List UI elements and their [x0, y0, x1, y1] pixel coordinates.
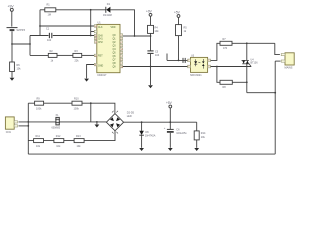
- svg-text:GND: GND: [98, 66, 103, 68]
- svg-text:1N4148: 1N4148: [103, 14, 112, 17]
- resistor R8: [220, 80, 247, 84]
- wire top row: [28, 103, 115, 113]
- junction: [90, 9, 92, 11]
- junction: [29, 43, 31, 45]
- svg-text:LED: LED: [127, 115, 132, 118]
- wire pin1 mid wire: [19, 121, 107, 123]
- wire left edge: [27, 103, 29, 154]
- svg-text:MAINS: MAINS: [285, 66, 293, 69]
- wire MT2 stem: [246, 43, 248, 60]
- junction: [27, 125, 29, 127]
- svg-text:1M: 1M: [48, 13, 51, 16]
- wire cap rail: [30, 35, 49, 37]
- svg-text:100u/25v: 100u/25v: [176, 132, 187, 135]
- ground: [10, 78, 15, 81]
- wire diode to corner: [110, 10, 150, 36]
- svg-text:100k: 100k: [74, 107, 80, 110]
- connector CN2 mains: [281, 53, 294, 65]
- wire IC pin to node: [123, 66, 151, 68]
- junction: [150, 66, 152, 68]
- svg-text:+9V: +9V: [146, 9, 153, 13]
- svg-text:+5V: +5V: [166, 101, 173, 105]
- svg-text:+9V: +9V: [8, 5, 15, 9]
- resistor R12: [54, 139, 64, 143]
- svg-text:CLK: CLK: [98, 27, 103, 29]
- svg-text:R10: R10: [74, 98, 79, 101]
- IC U1 pin boxes and texts: [94, 25, 210, 69]
- junction: [178, 60, 180, 62]
- resistor R13: [74, 139, 84, 143]
- svg-text:VDD: VDD: [111, 27, 116, 29]
- wire drop to mid: [90, 103, 92, 122]
- svg-text:+5V: +5V: [174, 10, 181, 14]
- wire R2 chain: [30, 54, 48, 56]
- svg-text:R13: R13: [76, 135, 81, 138]
- junction: [169, 121, 171, 123]
- wire node down to ground: [150, 67, 152, 86]
- wire top pin wire: [40, 25, 94, 27]
- wire battery to junction: [11, 31, 13, 44]
- resistor R5: [176, 25, 182, 61]
- wire pin6 up to R7: [211, 43, 221, 60]
- wire ground tap: [96, 122, 98, 125]
- fuse X1: [55, 117, 60, 125]
- wire MT1 to right edge: [247, 92, 275, 94]
- wire node to opto pin2: [151, 66, 188, 68]
- wire bottom vertex down: [28, 131, 115, 141]
- junction: [11, 43, 13, 45]
- ground: [168, 148, 173, 151]
- svg-text:CN1: CN1: [6, 131, 12, 134]
- capacitor C6: [167, 122, 174, 148]
- capacitor C1: [49, 33, 51, 38]
- junction: [90, 102, 92, 104]
- node +9V terminal 2: [149, 13, 152, 25]
- opto U3 pin numbers: [188, 60, 210, 68]
- wire IC pin3 stub: [123, 35, 135, 37]
- wire R1 riser: [39, 10, 41, 36]
- resistor R6: [10, 62, 15, 78]
- svg-text:CH0: CH0: [98, 36, 103, 38]
- wire dc plus rail: [124, 121, 197, 123]
- IC U1 pin boxes: [94, 25, 122, 68]
- triac U4: [242, 60, 252, 66]
- zener D6: [139, 122, 144, 148]
- resistor R9: [35, 101, 44, 105]
- wire stub up: [166, 54, 168, 61]
- svg-text:104: 104: [155, 54, 160, 57]
- wire node down to cap: [150, 36, 152, 51]
- node +5V terminal bottom: [169, 105, 172, 122]
- resistor R10: [72, 101, 82, 105]
- svg-text:470: 470: [223, 47, 228, 50]
- ground: [194, 148, 199, 151]
- diode D1: [106, 7, 111, 13]
- LED bridge D2-D5: [106, 111, 123, 134]
- ground: [139, 148, 144, 151]
- ground: [148, 85, 153, 88]
- junction: [274, 92, 276, 94]
- junction: [216, 66, 218, 68]
- svg-text:CH2: CH2: [98, 42, 103, 44]
- wire mains pin2: [275, 60, 280, 62]
- ground: [84, 79, 89, 82]
- wire cap down: [150, 54, 152, 67]
- svg-text:CH1: CH1: [98, 39, 103, 41]
- wire battery junction right: [12, 43, 30, 45]
- resistor R4: [148, 25, 154, 36]
- wire right edge: [274, 61, 276, 154]
- wire pin2: [19, 125, 29, 127]
- wire riser: [29, 36, 31, 56]
- resistor R1: [40, 8, 106, 12]
- capacitor C5: [147, 51, 153, 54]
- junction: [141, 121, 143, 123]
- wire jog vertical: [90, 10, 92, 36]
- battery B1: [7, 28, 18, 31]
- svg-text:1N4742A: 1N4742A: [145, 135, 156, 138]
- svg-text:BT136: BT136: [251, 62, 259, 65]
- wire pin stub: [91, 31, 95, 33]
- IC U1 pin numbers: [95, 26, 124, 69]
- wire gate from opto pin4: [211, 66, 252, 68]
- IC U1 pin names: [98, 27, 116, 69]
- junction: [134, 35, 136, 37]
- junction: [90, 35, 92, 37]
- resistor R7: [220, 41, 275, 45]
- svg-text:R14: R14: [201, 132, 206, 135]
- resistor R14: [194, 122, 199, 148]
- junction: [246, 42, 248, 44]
- wire cap to IC pin: [53, 35, 95, 37]
- svg-text:600/600: 600/600: [52, 127, 61, 130]
- svg-text:104: 104: [47, 39, 52, 42]
- wire opto pin1: [167, 59, 188, 61]
- svg-text:R12: R12: [56, 135, 61, 138]
- svg-text:RST: RST: [98, 55, 103, 57]
- ground: [95, 125, 100, 128]
- svg-text:9V/PP3: 9V/PP3: [17, 29, 26, 32]
- opto-coupler U3 MOC3021: [188, 57, 211, 72]
- wire IC ground pin: [87, 65, 95, 79]
- junction: [39, 25, 41, 27]
- svg-text:R11: R11: [36, 135, 41, 138]
- junction: [150, 35, 152, 37]
- junction: [96, 121, 98, 123]
- junction: [27, 121, 29, 123]
- node +5V terminal: [177, 15, 180, 25]
- svg-text:CD4017: CD4017: [97, 74, 107, 77]
- resistor R2: [48, 53, 73, 57]
- resistor R11: [34, 139, 44, 143]
- node +9V terminal: [10, 8, 13, 26]
- svg-text:MOC3021: MOC3021: [190, 74, 202, 77]
- wire MT1 down: [246, 64, 248, 93]
- connector CN1 line: [5, 117, 17, 129]
- svg-text:100k: 100k: [36, 107, 42, 110]
- wire bottom rail: [28, 153, 275, 155]
- IC U1 CD4017: [97, 24, 120, 72]
- wire to mains pin1: [275, 43, 280, 54]
- wire snubber drop: [217, 67, 220, 83]
- resistor R3: [73, 53, 95, 57]
- wire battery column down: [11, 44, 13, 62]
- capacitor C7: [183, 58, 185, 63]
- junction: [246, 81, 248, 83]
